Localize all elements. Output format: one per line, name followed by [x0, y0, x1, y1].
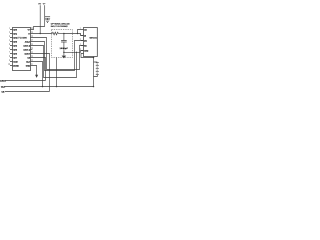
svg-text:COM: COM [13, 60, 18, 63]
junction CLK bus [42, 86, 44, 88]
wire dashed box ground drop [56, 58, 58, 87]
pin stub U1 DATA1 [31, 49, 33, 51]
svg-text:CH4: CH4 [13, 44, 18, 47]
wire U1 V+ to 5V rail [31, 27, 45, 30]
svg-text:CH6: CH6 [13, 52, 17, 55]
U1 left pin stubs [10, 30, 13, 66]
junction drop/bus [56, 86, 58, 88]
wire U2 V+ branch [78, 30, 84, 34]
ground for C1 [45, 20, 50, 23]
bus wire CLK [5, 86, 94, 88]
svg-text:DO: DO [84, 39, 87, 42]
svg-text:2: 2 [9, 32, 10, 34]
svg-text:CLK: CLK [26, 60, 31, 63]
svg-text:5: 5 [9, 44, 10, 46]
svg-text:V-: V- [28, 32, 30, 35]
svg-text:DATA 1: DATA 1 [24, 48, 30, 51]
svg-text:6: 6 [9, 48, 10, 50]
svg-text:DI: DI [84, 34, 86, 37]
svg-text:GND: GND [26, 64, 31, 67]
wire U1 ACLK rail B [31, 41, 84, 71]
wire U1 CLK to CLK bus [31, 62, 43, 87]
svg-text:1000pF: 1000pF [60, 47, 69, 50]
U2 inside pin labels [84, 28, 89, 52]
svg-text:CH1: CH1 [13, 32, 17, 35]
junction C2 node [63, 52, 65, 54]
wire U1 DOUT to CS bus [31, 54, 50, 92]
wire U1 analog out to filter [31, 33, 53, 35]
svg-text:CS: CS [84, 28, 87, 31]
U2 pin stubs [81, 36, 84, 51]
wire R1 to node [58, 33, 64, 35]
resistor R1 [52, 32, 58, 35]
ground filter triangle [63, 52, 65, 55]
bus wire CS [5, 91, 50, 93]
junction battery/bus [93, 86, 95, 88]
wire node to U2 V+ line [64, 34, 84, 36]
svg-text:9: 9 [9, 60, 10, 62]
svg-text:15: 15 [31, 48, 33, 50]
junction rail C / input wire [76, 52, 77, 53]
junction node filter [63, 33, 65, 35]
capacitor C2 [61, 34, 67, 53]
svg-text:SK: SK [84, 44, 87, 47]
svg-text:INPUT FILTERING: INPUT FILTERING [51, 25, 68, 28]
svg-text:CLK: CLK [1, 85, 6, 88]
svg-text:10: 10 [8, 64, 10, 66]
svg-text:CH2: CH2 [13, 36, 17, 39]
svg-text:CH0: CH0 [13, 28, 17, 31]
wire battery bottom [94, 75, 98, 77]
svg-text:DGND: DGND [13, 64, 19, 67]
battery B1 [96, 63, 99, 75]
U1 right inside pin labels [24, 28, 31, 67]
capacitor C1 bypass [45, 17, 50, 20]
svg-text:LTC1090: LTC1090 [17, 37, 28, 40]
wire V+ rail vertical [44, 5, 46, 26]
svg-text:OPTIONAL ANALOG: OPTIONAL ANALOG [51, 22, 70, 25]
svg-text:68HC05: 68HC05 [90, 37, 98, 40]
wire U1 CS to DATA bus [31, 58, 46, 81]
junction 5V rail / filter wire [40, 33, 41, 34]
svg-text:CH7: CH7 [13, 56, 17, 59]
svg-text:7: 7 [9, 52, 10, 54]
svg-text:3: 3 [9, 36, 10, 38]
dashed box optional filter [52, 30, 73, 58]
svg-text:ACLK: ACLK [25, 40, 31, 43]
svg-text:DATA 2: DATA 2 [24, 44, 30, 47]
svg-text:CH5: CH5 [13, 48, 17, 51]
U1 left inside pin labels [13, 28, 19, 67]
wire 5V rail to filter wire [39, 5, 41, 33]
svg-text:4: 4 [9, 40, 10, 42]
wire U1 DATA2 rail C [31, 46, 77, 78]
bus wire DATA [5, 80, 46, 82]
junction filter/V+ branch [77, 33, 78, 34]
svg-text:GND: GND [84, 49, 89, 52]
svg-text:DOUT: DOUT [25, 52, 31, 55]
wire battery top [94, 58, 98, 87]
svg-text:CS: CS [2, 90, 6, 93]
junction GND/battery [93, 57, 95, 59]
wire U2 GND run [81, 54, 94, 58]
wire C2 node to U2 input [64, 51, 84, 53]
IC U1 LTC1090 body [13, 28, 31, 71]
IC U2 body [84, 28, 98, 57]
arrow down [35, 75, 38, 78]
svg-text:8: 8 [9, 56, 10, 58]
svg-text:CH3: CH3 [13, 40, 17, 43]
wire U1 REF rail A [31, 38, 84, 70]
wire U1 GND arrow stem [31, 66, 37, 76]
svg-text:1: 1 [9, 28, 10, 30]
